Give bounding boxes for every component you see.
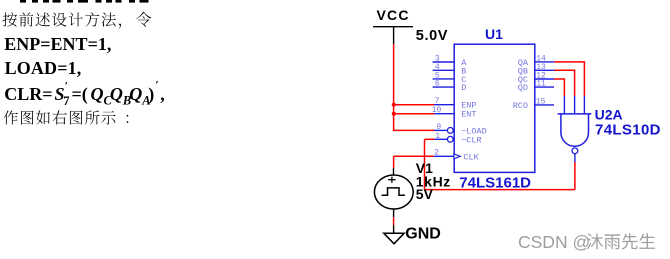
U1 output pins QA-QD (14,13,12,11) <box>518 55 554 94</box>
svg-text:GND: GND <box>405 226 441 243</box>
U2A title <box>595 107 623 123</box>
U1 RCO pin (15) <box>513 98 554 111</box>
74LS10D value label <box>595 121 661 138</box>
svg-text:Q: Q <box>129 84 142 104</box>
svg-text:ENP=ENT=1,: ENP=ENT=1, <box>4 34 111 54</box>
svg-text:~CLR: ~CLR <box>461 135 481 145</box>
cropped title text line at top edge <box>20 0 149 3</box>
svg-text:′: ′ <box>156 80 159 92</box>
svg-text:Q: Q <box>91 84 104 104</box>
U1 CLK pin (2) with clock triangle <box>434 149 480 163</box>
V1 square wave symbol <box>382 188 405 195</box>
3-input NAND gate U2A body <box>558 96 592 162</box>
text line: LOAD=1, <box>5 58 82 78</box>
wire feedback up to ~CLR <box>424 139 426 189</box>
svg-text:13: 13 <box>536 63 546 72</box>
svg-text:D: D <box>461 83 466 93</box>
V1 lead top (black) <box>393 168 395 175</box>
1kHz label <box>416 174 451 190</box>
junction dot at ENT <box>392 112 396 116</box>
svg-text:CSDN @: CSDN @ <box>518 232 590 252</box>
wire to ENP pin7 <box>393 104 434 106</box>
V1 label <box>416 160 433 176</box>
wire QA to gate <box>554 62 584 96</box>
wire into ~CLR pin1 <box>425 138 435 140</box>
5.0V label <box>416 28 448 44</box>
wire gate output down <box>574 162 576 190</box>
U1 data input pins A-D (3,4,5,6) <box>433 55 468 94</box>
svg-text:RCO: RCO <box>513 101 528 111</box>
ground symbol triangle <box>384 233 404 244</box>
svg-text:CLR=: CLR= <box>4 84 52 104</box>
svg-text:CLK: CLK <box>463 152 479 162</box>
wire to ~LOAD pin9 <box>393 129 434 131</box>
wire V1 to CLK vertical <box>393 156 395 168</box>
svg-text:2: 2 <box>434 149 439 158</box>
svg-text:U1: U1 <box>485 26 503 42</box>
svg-text:10: 10 <box>432 106 442 115</box>
svg-text:6: 6 <box>435 80 440 89</box>
CSDN watermark <box>518 232 655 252</box>
U1 body outline <box>454 44 535 172</box>
V1 source circle <box>374 175 413 209</box>
text line: 作图如右图所示： <box>4 110 129 124</box>
wire feedback bottom <box>425 189 575 191</box>
wire to ENT pin10 <box>393 113 434 115</box>
wire VCC vertical rail <box>393 44 395 131</box>
svg-text:ENT: ENT <box>461 110 476 120</box>
GND label <box>405 226 441 243</box>
U1 ~LOAD/~CLR pins (9,1) with bubbles <box>434 123 487 145</box>
GND lead (black) <box>393 225 395 233</box>
svg-text:QD: QD <box>518 83 528 93</box>
74LS161D value label <box>459 175 531 192</box>
svg-text:=(: =( <box>72 84 88 105</box>
svg-text:11: 11 <box>536 80 546 89</box>
V1 lead bottom (black) <box>393 209 395 217</box>
svg-text:15: 15 <box>536 98 546 107</box>
svg-text:9: 9 <box>436 123 441 132</box>
svg-text:,: , <box>160 84 165 104</box>
VCC label <box>377 7 410 23</box>
svg-text:): ) <box>148 84 154 105</box>
svg-text:′: ′ <box>65 81 68 93</box>
U1 ENP/ENT pins (7,10) <box>432 97 477 120</box>
text line: 按前述设计方法，令 <box>3 12 152 29</box>
svg-text:7: 7 <box>435 97 440 106</box>
wire QC to gate <box>554 79 564 96</box>
svg-text:5.0V: 5.0V <box>416 28 448 44</box>
wire V1 bottom red segment <box>393 217 395 225</box>
U1 title <box>485 26 503 42</box>
5V label <box>416 186 434 202</box>
VCC lead (black) <box>393 27 395 45</box>
svg-text:7: 7 <box>63 94 69 108</box>
svg-text:1: 1 <box>435 132 440 141</box>
svg-text:Q: Q <box>110 84 123 104</box>
wire QB to gate <box>554 70 575 96</box>
svg-text:74LS10D: 74LS10D <box>595 121 661 138</box>
wire V1 to CLK horizontal <box>394 155 434 157</box>
svg-text:VCC: VCC <box>377 7 410 23</box>
svg-text:5V: 5V <box>416 186 434 202</box>
junction dot at ENP <box>392 103 396 107</box>
text line: ENP=ENT=1, <box>4 34 111 54</box>
svg-text:74LS161D: 74LS161D <box>459 175 531 192</box>
text line: CLR=S7'=(QCQBQA)' formula <box>4 80 164 109</box>
V1 plus sign <box>388 177 395 183</box>
svg-text:U2A: U2A <box>595 107 623 123</box>
svg-text:LOAD=1,: LOAD=1, <box>5 58 82 78</box>
VCC power symbol bar <box>373 26 413 28</box>
